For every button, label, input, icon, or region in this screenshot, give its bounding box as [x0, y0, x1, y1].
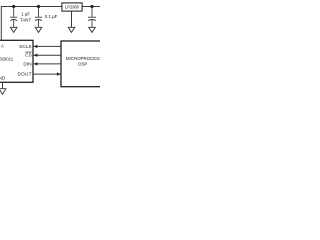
wire DIN [34, 63, 61, 65]
svg-text:DSP: DSP [78, 62, 87, 67]
wire SCLK [34, 45, 61, 47]
svg-text:TANT: TANT [20, 17, 31, 22]
svg-text:DIN: DIN [23, 61, 31, 66]
ground under C2 [35, 27, 42, 32]
ground under codec GND pin [0, 89, 6, 95]
ground under LP2980 [68, 27, 75, 32]
svg-text:A: A [1, 43, 4, 48]
node junction at C1 [12, 5, 15, 8]
wire CS [34, 54, 61, 56]
svg-text:DOUT: DOUT [18, 72, 32, 77]
ground under C1 [10, 27, 17, 32]
svg-text:SCLK: SCLK [19, 44, 32, 49]
node junction at C3 [90, 5, 93, 8]
capacitor C3 output cap [88, 7, 96, 28]
wire top rail left segment [1, 6, 62, 8]
capacitor C2 0.1uF [35, 7, 42, 28]
capacitor C1 1uF TANT [10, 7, 17, 28]
op-amp U1 codec box (cut off at left) [0, 40, 33, 82]
node junction at C2 [37, 5, 40, 8]
svg-text:GND: GND [0, 76, 6, 81]
svg-text:329021: 329021 [0, 56, 14, 61]
svg-text:MICROPROCESSOR/: MICROPROCESSOR/ [66, 56, 100, 61]
wire vertical VCC feed to codec [0, 6, 2, 40]
svg-text:CS: CS [25, 53, 32, 58]
wire DOUT [34, 73, 61, 75]
regulator U2 LP2980 [62, 3, 82, 11]
svg-text:0.1 µF: 0.1 µF [45, 14, 58, 19]
svg-text:1 µF: 1 µF [21, 12, 30, 17]
svg-text:LP2980: LP2980 [65, 5, 80, 10]
wire regulator ground lead [71, 11, 73, 27]
ground under C3 [89, 27, 96, 32]
wire GND lead [2, 82, 4, 88]
microprocessor U3 box (cut off at right) [61, 41, 107, 87]
wire top rail right segment [82, 6, 100, 8]
